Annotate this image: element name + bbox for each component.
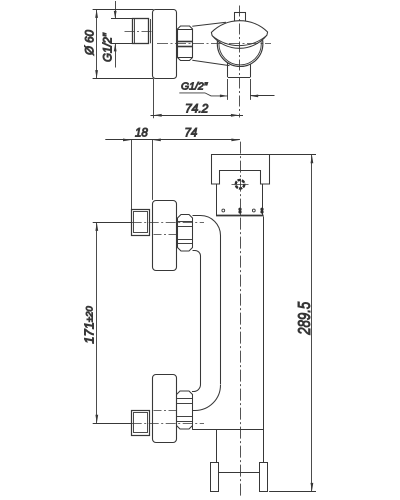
bracket holes xyxy=(222,208,264,214)
lower union escutcheon xyxy=(153,375,177,443)
bracket screw xyxy=(232,180,249,189)
svg-text:18: 18 xyxy=(135,128,148,140)
valve handle circle (top view) xyxy=(217,21,263,67)
valve vertical centerline (top view) xyxy=(239,6,241,118)
dimension 74.2 xyxy=(151,79,244,118)
lower union axis centerline xyxy=(154,410,177,412)
hex nut (top view) xyxy=(177,26,192,61)
wall port square (top view) xyxy=(133,19,151,44)
lower port centerline xyxy=(93,423,204,425)
svg-text:289.5: 289.5 xyxy=(294,302,314,336)
svg-text:74: 74 xyxy=(185,128,198,140)
dimension G1/2 inlet xyxy=(111,1,132,68)
crescent lever handle (top view) xyxy=(211,21,267,49)
dimension G1/2 outlet leader xyxy=(179,79,274,100)
column lower left edge xyxy=(216,430,218,463)
column bottom edge xyxy=(192,429,263,431)
upper union nut xyxy=(177,215,192,252)
svg-text:74.2: 74.2 xyxy=(185,102,209,116)
dimension O60 xyxy=(93,9,154,78)
dimension 171+-20 xyxy=(95,222,98,423)
front vertical centerline xyxy=(240,142,242,496)
svg-text:G1/2″: G1/2″ xyxy=(103,32,115,62)
upper union axis centerline xyxy=(154,234,177,236)
outlet pipe G1/2 (top view) xyxy=(228,63,251,78)
dimension 289.5 xyxy=(269,155,316,492)
svg-text:G1/2″: G1/2″ xyxy=(181,81,209,93)
upper union port square xyxy=(132,210,150,236)
connecting pipe upper elbow xyxy=(193,216,221,385)
svg-text:171±20: 171±20 xyxy=(82,306,97,344)
conical valve body (top view) xyxy=(192,22,229,65)
svg-text:Ø 60: Ø 60 xyxy=(85,29,97,56)
lower union nut xyxy=(177,391,193,429)
temperature knob on top (top view) xyxy=(235,13,246,22)
valve horizontal centerline (top view) xyxy=(157,43,271,45)
column right edge xyxy=(263,217,265,463)
lower union port square xyxy=(132,411,150,436)
dimension 18 and 74 xyxy=(105,139,240,210)
connecting pipe lower elbow xyxy=(192,385,221,430)
upper union escutcheon xyxy=(153,201,177,271)
body escutcheon O60 (top view) xyxy=(153,10,177,79)
upper port centerline xyxy=(93,222,204,224)
wall bracket bottom xyxy=(211,463,268,492)
port centerline (top view) xyxy=(125,31,158,33)
wall bracket top xyxy=(212,155,270,216)
